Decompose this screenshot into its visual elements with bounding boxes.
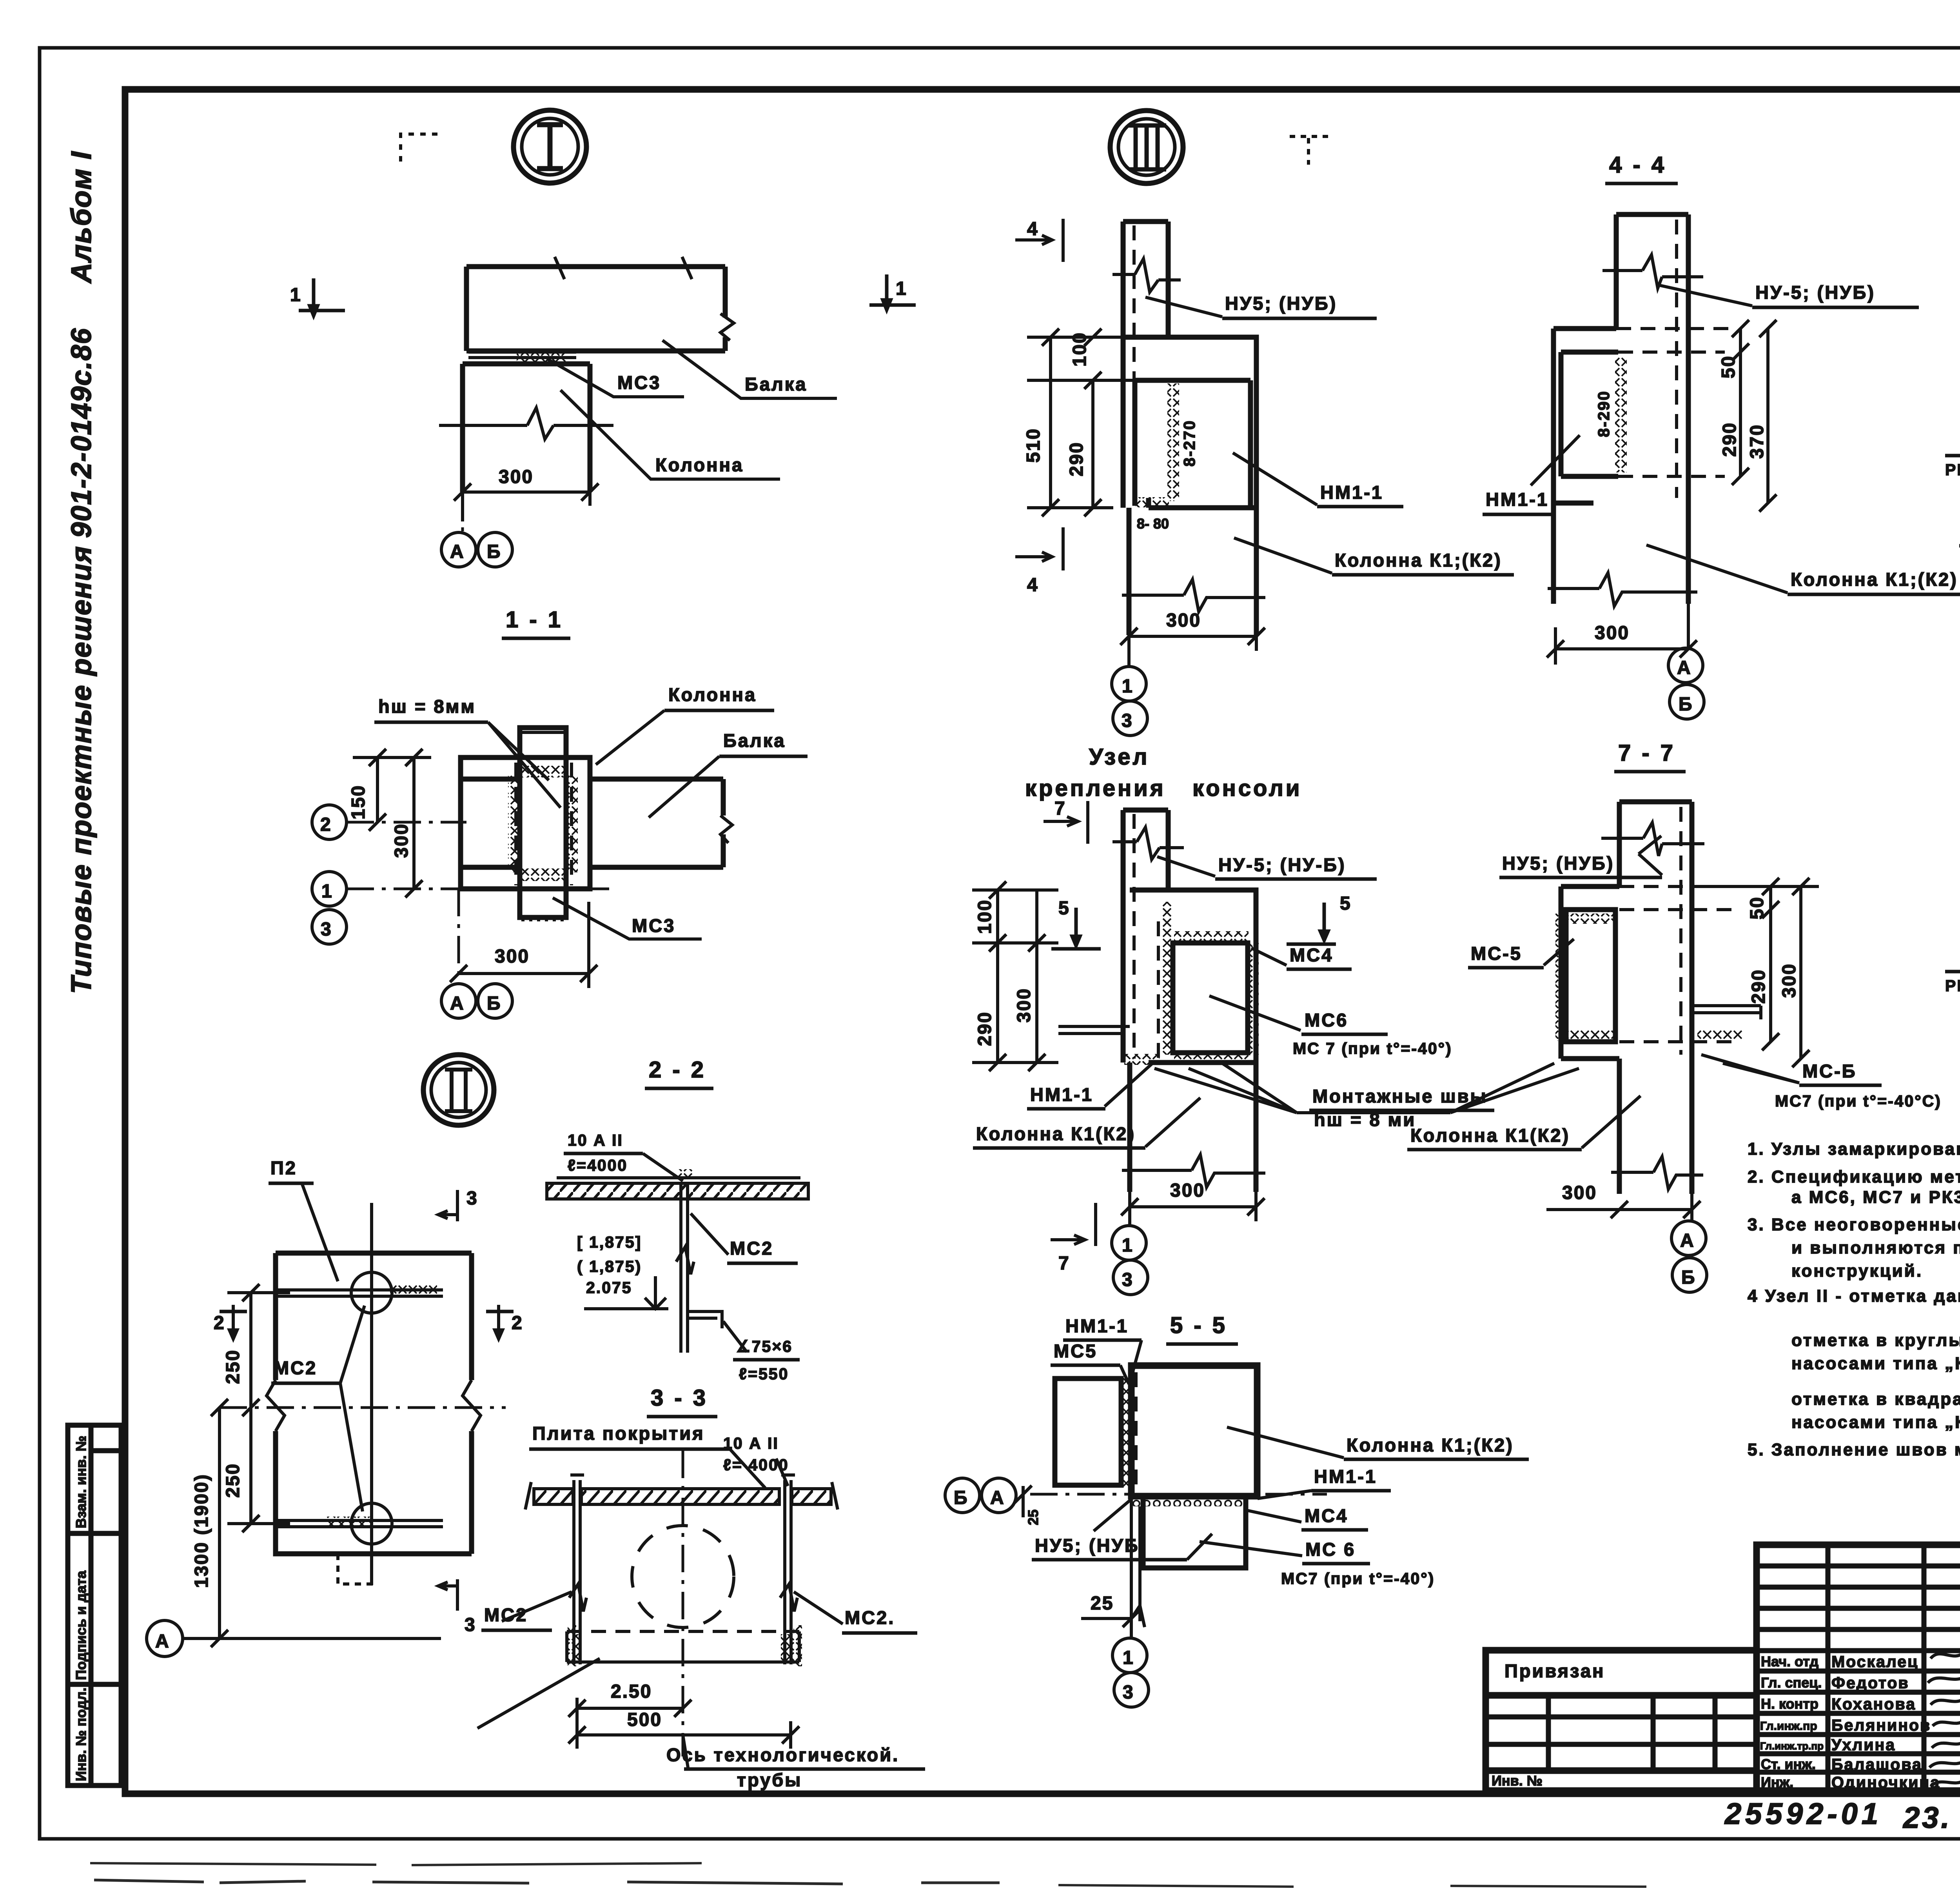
- svg-text:100: 100: [975, 899, 995, 934]
- svg-text:МС4: МС4: [1305, 1505, 1348, 1526]
- svg-text:( 1,875): ( 1,875): [577, 1257, 642, 1275]
- svg-text:8-290: 8-290: [1595, 390, 1613, 437]
- column axis break: [439, 424, 613, 427]
- svg-text:1: 1: [1122, 676, 1134, 697]
- svg-text:2: 2: [214, 1313, 225, 1333]
- svg-text:Колонна К1;(К2): Колонна К1;(К2): [1347, 1435, 1514, 1455]
- svg-text:1: 1: [1123, 1648, 1134, 1668]
- svg-text:23.: 23.: [1902, 1801, 1952, 1835]
- dim 300 (7-7): [1619, 1208, 1692, 1211]
- beam Балка (elevation): [466, 267, 725, 351]
- axis to А Б circles: [457, 889, 460, 984]
- svg-text:290: 290: [1066, 441, 1087, 476]
- vertical axis: [370, 1203, 373, 1585]
- axis + circles А Б (4-4): [1687, 503, 1690, 647]
- svg-text:Н. контр: Н. контр: [1761, 1696, 1818, 1712]
- label МС2 (2-2): [691, 1213, 728, 1255]
- svg-text:и выполняются после оконч: и выполняются после окончательной выверк…: [1791, 1238, 1960, 1257]
- dim 1300 (1900): [218, 1408, 221, 1638]
- svg-text:А: А: [1680, 1230, 1695, 1251]
- svg-text:МС7 (при t°=-40°C): МС7 (при t°=-40°C): [1775, 1092, 1942, 1110]
- svg-text:НУ-5; (НУ-Б): НУ-5; (НУ-Б): [1218, 854, 1346, 875]
- svg-text:300: 300: [495, 946, 530, 967]
- svg-text:Коханова: Коханова: [1831, 1695, 1916, 1713]
- svg-text:7: 7: [1058, 1253, 1070, 1274]
- bottom angle 75x6: [688, 1311, 722, 1328]
- label НУ5; (НУБ) (5-5): [1094, 1499, 1132, 1531]
- label Колонна К1;(К2) (4-4): [1646, 545, 1788, 593]
- column Колонна (elevation): [463, 364, 590, 492]
- svg-text:Балка: Балка: [745, 374, 807, 394]
- svg-text:Монтажные швы: Монтажные швы: [1312, 1086, 1488, 1106]
- dims right (7-7): 50 290 300: [1769, 886, 1772, 1042]
- svg-text:290: 290: [975, 1011, 995, 1046]
- svg-text:Плита покрытия: Плита покрытия: [532, 1423, 705, 1444]
- svg-text:3 - 3: 3 - 3: [651, 1385, 708, 1411]
- svg-text:150: 150: [348, 785, 369, 819]
- svg-text:НМ1-1: НМ1-1: [1065, 1315, 1129, 1336]
- svg-text:4 - 4: 4 - 4: [1609, 152, 1666, 178]
- svg-text:Колонна К1(К2): Колонна К1(К2): [1410, 1125, 1570, 1146]
- svg-text:П2: П2: [270, 1157, 297, 1178]
- weld 8-290: [1615, 357, 1627, 472]
- svg-text:Б: Б: [1679, 694, 1693, 715]
- svg-text:Б: Б: [487, 993, 502, 1014]
- axis 2 + circle: [347, 821, 466, 824]
- svg-text:3: 3: [465, 1615, 476, 1635]
- svg-text:Колонна: Колонна: [655, 454, 744, 475]
- svg-text:МС-5: МС-5: [1471, 943, 1522, 964]
- svg-text:Ось технологической.: Ось технологической.: [666, 1744, 899, 1765]
- svg-text:300: 300: [1779, 963, 1800, 998]
- break symbol: [1602, 255, 1703, 288]
- label Колонна К1;(К2) (5-5): [1227, 1427, 1344, 1458]
- svg-text:7: 7: [1054, 798, 1066, 819]
- svg-text:Взам. инв. №: Взам. инв. №: [73, 1436, 89, 1528]
- label НМ1-1 (узел III): [1233, 453, 1317, 505]
- node marker circle II: [423, 1055, 494, 1125]
- column НУ-5: [1616, 214, 1688, 503]
- svg-text:1: 1: [290, 285, 302, 305]
- dim 300 (vertical): [412, 757, 416, 889]
- svg-text:3: 3: [1122, 1270, 1134, 1290]
- node marker circle III: [1110, 111, 1183, 183]
- svg-text:НМ1-1: НМ1-1: [1314, 1466, 1377, 1487]
- svg-text:МС2.: МС2.: [845, 1607, 895, 1628]
- svg-text:25592-01: 25592-01: [1724, 1797, 1882, 1831]
- svg-text:Нач. отд: Нач. отд: [1761, 1653, 1818, 1669]
- label Колонна К1(К2) (middle): [1145, 1098, 1200, 1147]
- leader НМ1-1 (from left): [1531, 435, 1580, 485]
- left plate МС6 (5-5): [1055, 1379, 1121, 1485]
- svg-text:Колонна К1;(К2): Колонна К1;(К2): [1791, 569, 1958, 590]
- horizontal axis (dash-dot): [220, 1406, 506, 1409]
- dim 300 bottom (1-1): [459, 972, 589, 975]
- label Балка: [662, 340, 837, 398]
- column below (7-7): [1617, 1059, 1622, 1194]
- svg-text:4: 4: [1027, 219, 1039, 240]
- grid circle А + leader: [147, 1620, 183, 1657]
- label уголок 75х6: [723, 1321, 747, 1352]
- welds xxx: [1161, 902, 1172, 1055]
- stem МС2 right (3-3): [781, 1475, 795, 1664]
- svg-text:Привязан: Привязан: [1504, 1660, 1605, 1681]
- svg-text:1: 1: [896, 278, 907, 299]
- svg-text:НМ1-1: НМ1-1: [1486, 489, 1549, 510]
- svg-text:300: 300: [1166, 610, 1201, 631]
- svg-text:1: 1: [1122, 1235, 1134, 1256]
- registration dash mark: [401, 134, 441, 162]
- column square (5-5): [1131, 1366, 1257, 1496]
- svg-text:МС-Б: МС-Б: [1802, 1061, 1857, 1081]
- dim 250 / 250: [249, 1293, 252, 1524]
- bearing plate and weld under beam: [468, 352, 576, 358]
- section mark 7 bottom: [1051, 1203, 1096, 1246]
- sidebar stamp table: [68, 1425, 121, 1786]
- svg-text:5. Заполнение швов между пли: 5. Заполнение швов между плитами смотри …: [1748, 1440, 1960, 1459]
- registration dash mark: [1290, 136, 1329, 165]
- label Монтажные швы hш=8мм (shared): [1154, 1063, 1297, 1113]
- label МС4 (5-5): [1247, 1510, 1301, 1522]
- dimension 300 (узел I): [463, 490, 590, 494]
- svg-text:Балка: Балка: [723, 730, 786, 751]
- stem МС2 left (3-3): [570, 1475, 584, 1664]
- svg-text:290: 290: [1719, 422, 1740, 457]
- svg-text:Москалец: Москалец: [1831, 1653, 1918, 1671]
- slab (hatched) 3-3: [534, 1489, 573, 1504]
- right angle bracket: [1692, 1006, 1761, 1019]
- svg-text:А: А: [1677, 658, 1692, 678]
- column К1 below (4-4): [1686, 503, 1691, 604]
- svg-text:250: 250: [223, 1349, 243, 1384]
- pipe axis dashed circle: [632, 1526, 734, 1628]
- welds xxx (7-7): [1567, 914, 1614, 924]
- column square (plan): [461, 757, 590, 889]
- axis + circles 1 3: [1127, 508, 1131, 667]
- round weld under column: [1131, 1496, 1246, 1506]
- svg-text:насосами типа „К” производите: насосами типа „К” производительностью 20…: [1791, 1413, 1960, 1432]
- svg-text:25: 25: [1025, 1509, 1041, 1525]
- svg-text:МС 6: МС 6: [1305, 1539, 1356, 1560]
- svg-text:МС3: МС3: [617, 372, 661, 393]
- dims left of узел III: 100 / 290 / 510: [1049, 337, 1052, 508]
- svg-text:4: 4: [1027, 575, 1039, 596]
- svg-text:370: 370: [1747, 424, 1768, 459]
- axis circles 1 3 (5-5): [1130, 1621, 1133, 1638]
- svg-text:500: 500: [627, 1709, 662, 1730]
- weld strip: [1121, 1376, 1131, 1489]
- svg-text:МС2: МС2: [730, 1238, 773, 1259]
- bottom plate МС6 (5-5): [1143, 1496, 1246, 1568]
- svg-text:Колонна К1;(К2): Колонна К1;(К2): [1335, 550, 1502, 570]
- rebar line over slab: [557, 1176, 800, 1179]
- svg-text:2: 2: [320, 814, 332, 835]
- left angle console: [1058, 1026, 1130, 1034]
- svg-text:МС 7 (при t°=-40°): МС 7 (при t°=-40°): [1293, 1039, 1452, 1057]
- svg-text:Альбом I: Альбом I: [66, 151, 97, 284]
- svg-text:250: 250: [223, 1463, 243, 1498]
- svg-text:отметка в круглых скобках: отметка в круглых скобках дана для вариа…: [1791, 1331, 1960, 1350]
- labels МС-6 / МС7 (7-7): [1701, 1055, 1799, 1083]
- label НУ-5; (НУ-Б): [1157, 857, 1215, 876]
- svg-text:Типовые проектные решения: Типовые проектные решения: [66, 545, 97, 994]
- svg-text:Федотов: Федотов: [1831, 1674, 1909, 1692]
- svg-text:Б: Б: [487, 541, 502, 562]
- dim 300 (узел III): [1129, 635, 1256, 638]
- dim 300 (middle): [1130, 1205, 1256, 1208]
- svg-text:1. Узлы замаркированы на лист: 1. Узлы замаркированы на листе Б.: [1748, 1139, 1960, 1159]
- label МС6 / МС7 (5-5): [1200, 1542, 1302, 1556]
- label НУ5; (НУБ): [1145, 297, 1222, 317]
- break on column: [1122, 579, 1265, 612]
- svg-text:1 - 1: 1 - 1: [506, 607, 563, 632]
- vertical axis (3-3): [682, 1451, 684, 1757]
- svg-text:МС3: МС3: [632, 915, 675, 936]
- label НУ5; (НУБ) (7-7): [1639, 836, 1661, 854]
- svg-text:А: А: [450, 541, 465, 562]
- svg-text:Инв. №: Инв. №: [1492, 1773, 1543, 1789]
- svg-text:3: 3: [466, 1188, 478, 1209]
- svg-text:МС7 (при t°=-40°): МС7 (при t°=-40°): [1281, 1569, 1435, 1588]
- console assembly (7-7, left of column): [1561, 886, 1619, 1059]
- svg-text:отметка в квадратных скобка: отметка в квадратных скобках дана для ва…: [1791, 1390, 1960, 1409]
- svg-text:НМ1-1: НМ1-1: [1030, 1084, 1093, 1105]
- label МС4: [1251, 948, 1287, 965]
- svg-text:3: 3: [1123, 1682, 1134, 1703]
- svg-text:2: 2: [512, 1313, 523, 1333]
- svg-text:1300 (1900): 1300 (1900): [191, 1473, 212, 1588]
- axis 1,3 + circles: [347, 888, 615, 890]
- svg-text:3: 3: [321, 919, 332, 940]
- svg-text:Балашова: Балашова: [1831, 1755, 1922, 1773]
- column flanges dashed: [514, 763, 517, 885]
- dims left (middle node): 100 300 290: [996, 890, 999, 1063]
- svg-text:РК2с (при t°=-40°C): РК2с (при t°=-40°C): [1945, 461, 1960, 479]
- svg-text:5 - 5: 5 - 5: [1170, 1313, 1227, 1338]
- column НУ5 (narrow): [1123, 222, 1168, 508]
- small dashed opening below plate: [338, 1554, 374, 1584]
- svg-text:консоли: консоли: [1192, 776, 1302, 801]
- column К1 below console: [1129, 508, 1256, 635]
- column below (middle): [1130, 1063, 1256, 1192]
- axis + circles 1 3 (middle): [1128, 1192, 1131, 1225]
- svg-text:конструкций.: конструкций.: [1791, 1261, 1923, 1281]
- torn edge dashes: [90, 1863, 702, 1865]
- svg-text:а МС6, МС7 и РК3с, РК2с см.: а МС6, МС7 и РК3с, РК2с см. на листе АР5…: [1791, 1188, 1960, 1207]
- svg-text:Подпись и дата: Подпись и дата: [73, 1570, 89, 1680]
- weld 8-80 strip: [1136, 497, 1169, 507]
- svg-text:∠75×6: ∠75×6: [736, 1337, 793, 1355]
- svg-text:А: А: [450, 993, 465, 1014]
- console assembly (middle): [1130, 890, 1256, 1063]
- column НУ5 (7-7): [1619, 802, 1692, 1059]
- svg-text:300: 300: [1170, 1180, 1205, 1201]
- break symbol on НУ5: [1112, 259, 1181, 292]
- weld 8-270 strip: [1167, 383, 1179, 501]
- dims right (4-4): 50 / 290 / 370: [1739, 329, 1742, 476]
- svg-text:300: 300: [391, 823, 412, 858]
- node marker circle I: [514, 110, 586, 183]
- svg-text:2.075: 2.075: [586, 1279, 632, 1297]
- svg-text:Колонна: Колонна: [668, 684, 757, 705]
- svg-text:300: 300: [1595, 623, 1630, 643]
- slab (hatched) 2-2: [547, 1183, 808, 1199]
- label Колонна К1(К2) (7-7): [1582, 1096, 1641, 1148]
- svg-text:2 - 2: 2 - 2: [649, 1057, 706, 1083]
- svg-text:МС2: МС2: [274, 1357, 317, 1378]
- column НУ5: [1123, 810, 1168, 890]
- label МС6 / МС7: [1209, 996, 1301, 1030]
- svg-text:ℓ=550: ℓ=550: [739, 1365, 789, 1383]
- svg-text:трубы: трубы: [737, 1769, 802, 1790]
- svg-text:МС5: МС5: [1054, 1341, 1097, 1361]
- leader to band: [477, 1658, 600, 1728]
- signature table: [1757, 1545, 1960, 1791]
- weld xxx along plate: [508, 774, 521, 872]
- embed bar МС2 bottom: [277, 1520, 443, 1527]
- svg-text:300: 300: [499, 467, 534, 487]
- svg-text:10 А II: 10 А II: [568, 1131, 623, 1149]
- label НУ-5; (НУБ): [1660, 285, 1752, 306]
- svg-text:Гл.инж.тр.пр: Гл.инж.тр.пр: [1760, 1740, 1824, 1752]
- svg-text:8-270: 8-270: [1180, 420, 1198, 467]
- label Ось технологической трубы: [683, 1735, 688, 1767]
- svg-text:25: 25: [1091, 1593, 1114, 1614]
- T-stem МС2 (2-2): [681, 1183, 688, 1353]
- svg-text:2. Спецификацию металлически: 2. Спецификацию металлических элементов …: [1748, 1167, 1960, 1186]
- section mark 4 bottom: [1015, 527, 1063, 570]
- plate П2 outline: [276, 1253, 472, 1554]
- beam strip (plan): [590, 779, 723, 867]
- dim 150 (vertical): [376, 757, 379, 822]
- svg-text:Б: Б: [954, 1488, 969, 1508]
- svg-text:НУ5; (НУБ): НУ5; (НУБ): [1502, 853, 1614, 874]
- svg-text:1: 1: [321, 881, 333, 902]
- label МС2 right (3-3): [794, 1592, 843, 1624]
- dim 300 (4-4): [1555, 647, 1688, 650]
- svg-text:МС4: МС4: [1290, 945, 1333, 965]
- label МС3 (1-1): [553, 898, 702, 939]
- svg-text:5: 5: [1340, 893, 1352, 914]
- svg-text:8- 80: 8- 80: [1137, 516, 1169, 532]
- axis + circles А Б (7-7): [1690, 1194, 1693, 1220]
- svg-text:50: 50: [1747, 896, 1768, 919]
- label МС3: [547, 359, 684, 397]
- svg-text:50: 50: [1718, 355, 1739, 378]
- support band: [567, 1630, 799, 1633]
- svg-text:510: 510: [1023, 428, 1044, 463]
- console НМ1-1 (4-4, left of column): [1553, 329, 1616, 604]
- svg-text:901-2-0149с.86: 901-2-0149с.86: [66, 328, 97, 538]
- grid axis + circles А Б: [461, 492, 464, 532]
- column НУ5 below (5-5): [1131, 1496, 1140, 1621]
- svg-text:2.50: 2.50: [611, 1681, 652, 1702]
- svg-text:А: А: [155, 1631, 170, 1652]
- label МС-5: [1544, 939, 1574, 965]
- svg-text:Б: Б: [1681, 1267, 1696, 1288]
- svg-text:крепления: крепления: [1025, 776, 1166, 801]
- label НМ1-1 (middle): [1105, 1063, 1152, 1106]
- central plate МС3 (plan): [520, 728, 566, 917]
- svg-text:300: 300: [1562, 1183, 1597, 1203]
- svg-text:Гл.инж.пр: Гл.инж.пр: [1760, 1720, 1817, 1733]
- console НМ1-1 (узел III): [1121, 337, 1256, 508]
- svg-text:Одиночкина: Одиночкина: [1831, 1773, 1940, 1791]
- svg-text:МС2: МС2: [484, 1604, 528, 1625]
- svg-text:Узел: Узел: [1089, 744, 1149, 770]
- label Колонна К1;(К2): [1234, 538, 1332, 573]
- embed bar МС2 top: [277, 1290, 443, 1296]
- svg-text:Колонна К1(К2): Колонна К1(К2): [976, 1123, 1136, 1144]
- svg-text:Инж.: Инж.: [1761, 1774, 1793, 1790]
- svg-text:[ 1,875]: [ 1,875]: [577, 1233, 642, 1251]
- svg-text:А: А: [990, 1488, 1005, 1508]
- svg-text:Инв. № подл.: Инв. № подл.: [73, 1687, 89, 1781]
- svg-text:НМ1-1: НМ1-1: [1320, 482, 1383, 503]
- svg-text:РК2с (при t°=-40°C): РК2с (при t°=-40°C): [1945, 977, 1960, 995]
- svg-text:МС6: МС6: [1305, 1010, 1348, 1030]
- label МС2 left (3-3): [502, 1592, 572, 1621]
- svg-text:10 А II: 10 А II: [723, 1434, 779, 1452]
- svg-text:hш = 8 ми: hш = 8 ми: [1314, 1109, 1416, 1130]
- signatures squiggles: [1931, 1650, 1960, 1658]
- svg-text:3: 3: [1122, 710, 1133, 731]
- svg-text:Ст. инж.: Ст. инж.: [1761, 1756, 1816, 1772]
- svg-text:7 - 7: 7 - 7: [1618, 740, 1675, 766]
- svg-text:290: 290: [1748, 969, 1769, 1004]
- grid circles Б А (5-5): [945, 1478, 980, 1513]
- svg-text:НУ5; (НУБ): НУ5; (НУБ): [1225, 293, 1337, 314]
- svg-text:Ухлина: Ухлина: [1831, 1736, 1896, 1754]
- axis horizontal (5-5): [1030, 1493, 1327, 1496]
- svg-text:300: 300: [1014, 988, 1034, 1023]
- svg-text:Белянинов: Белянинов: [1831, 1716, 1931, 1734]
- svg-text:5: 5: [1058, 898, 1070, 919]
- привязан box: [1486, 1650, 1757, 1791]
- svg-text:ℓ=4000: ℓ=4000: [568, 1156, 628, 1174]
- dim 25 small: [1022, 1486, 1025, 1517]
- svg-text:Гл. спец.: Гл. спец.: [1761, 1675, 1822, 1691]
- svg-text:3. Все неоговоренные сварны: 3. Все неоговоренные сварные швы приняты…: [1748, 1215, 1960, 1234]
- svg-text:100: 100: [1069, 332, 1090, 367]
- svg-text:НУ-5; (НУБ): НУ-5; (НУБ): [1755, 282, 1875, 303]
- svg-text:hш = 8мм: hш = 8мм: [378, 696, 476, 717]
- svg-text:насосами типа „К” производите: насосами типа „К” производительностью 13…: [1791, 1354, 1960, 1373]
- svg-text:4 Узел II - отметка дана д: 4 Узел II - отметка дана для варианта с …: [1748, 1286, 1960, 1306]
- label Колонна: [561, 390, 780, 479]
